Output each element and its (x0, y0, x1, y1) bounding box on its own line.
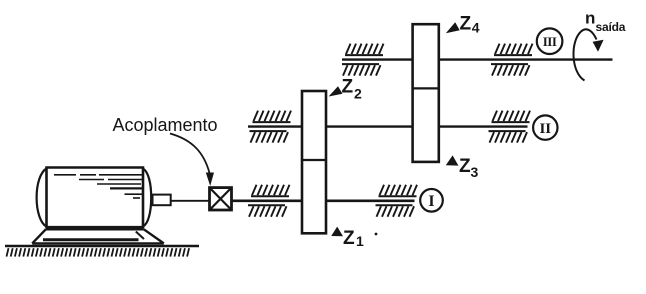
coupling (Acoplamento) square with X (210, 188, 232, 210)
bearing shaft III left support (342, 44, 384, 76)
wire shaft I line after coupling (232, 200, 415, 203)
stray dot after Z1 (375, 233, 378, 236)
svg-text:Acoplamento: Acoplamento (113, 115, 218, 135)
rotation arrowhead (593, 40, 604, 52)
svg-text:II: II (539, 121, 551, 137)
wire shaft III line (342, 58, 613, 60)
wire shaft II line (248, 125, 528, 127)
bearing shaft II right support (489, 111, 531, 143)
motor base pedestal (32, 229, 164, 243)
svg-text:saída: saída (596, 20, 626, 34)
svg-text:Z: Z (343, 228, 355, 249)
svg-text:4: 4 (472, 19, 480, 35)
ground hatching (7, 248, 190, 256)
svg-text:Z: Z (342, 77, 354, 98)
bearing shaft I right support (376, 185, 418, 217)
svg-text:Z: Z (459, 156, 471, 177)
svg-text:III: III (543, 34, 557, 49)
bearing shaft III right support (491, 44, 533, 76)
gear Z3 arrow (446, 155, 459, 165)
output rotation arc n_saida (573, 29, 596, 80)
svg-text:2: 2 (354, 85, 362, 101)
svg-text:1: 1 (356, 233, 364, 249)
svg-text:3: 3 (471, 164, 479, 180)
leader arrow to coupling (170, 134, 210, 174)
bearing shaft I left support (248, 185, 290, 217)
svg-text:Z: Z (460, 14, 472, 35)
gear pair block Z4/Z3 on shafts III and II (413, 24, 439, 162)
motor shading speed lines (54, 175, 142, 198)
node shaft II label circle (533, 115, 557, 139)
node shaft III label circle (537, 28, 563, 54)
svg-text:n: n (585, 9, 595, 28)
motor M body (37, 168, 152, 228)
gear Z4 arrow (446, 22, 460, 33)
node shaft I label circle (420, 189, 443, 212)
gear Z1 arrow (331, 227, 343, 237)
gear Z2 arrow (329, 86, 343, 96)
ground line under motor (5, 245, 199, 247)
gear pair block Z2/Z1 on shafts II and I (302, 91, 326, 233)
bearing shaft II left support (250, 111, 292, 143)
motor shaft stub (153, 195, 171, 206)
svg-text:I: I (428, 193, 434, 210)
wire shaft I line (171, 200, 210, 202)
